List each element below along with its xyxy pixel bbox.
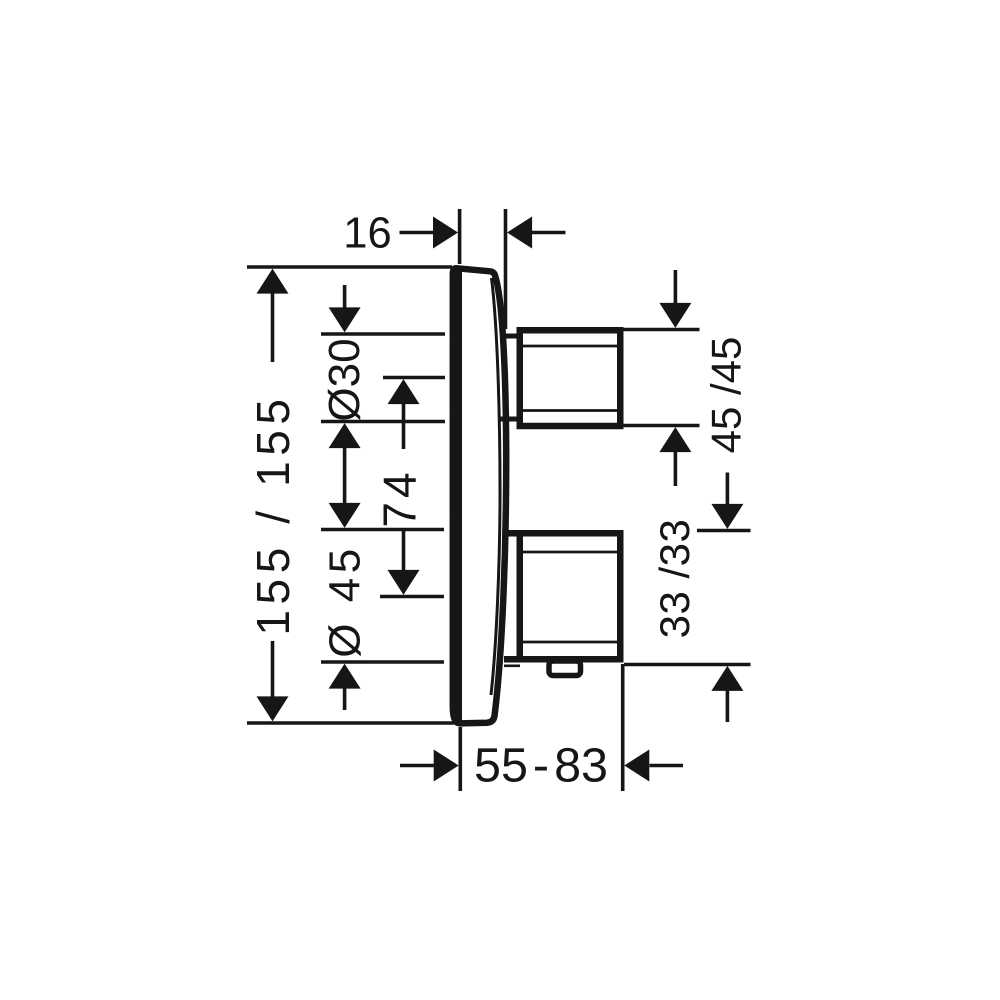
tick 155 bottom — [247, 721, 457, 725]
45/45 lower tail — [674, 452, 678, 486]
svg-text:16: 16 — [343, 210, 391, 258]
ext line 16 left — [458, 209, 462, 264]
arrow down d30 top — [329, 307, 361, 332]
16 arrow tail — [400, 231, 436, 235]
arrow down 74 bottom — [388, 570, 420, 595]
tick 155 top — [247, 265, 452, 269]
svg-text:45 /45: 45 /45 — [702, 337, 749, 454]
arrow left 55-83 — [624, 750, 649, 782]
ext line 16 right — [504, 209, 508, 329]
top knob collar stub upper — [500, 334, 520, 339]
33/33 lower tail — [726, 690, 730, 722]
ext line 33/33 top — [697, 529, 751, 533]
dimension lines, 3.2px — [247, 209, 751, 791]
ext line 55-83 left — [458, 727, 462, 791]
ext line 45/45 bottom — [610, 424, 700, 428]
arrow up 33/33 bottom — [711, 666, 743, 691]
ext line 45/45 top — [621, 328, 700, 332]
74 dim upper segment — [402, 403, 406, 449]
arrow up 45/45 bottom — [659, 427, 691, 452]
74 dim lower segment — [402, 528, 406, 570]
ext line 33/33 bottom — [624, 663, 751, 667]
ext line 55-83 right — [621, 664, 625, 791]
d30-d45 middle tail — [343, 448, 347, 503]
arrow up 74 top — [388, 379, 420, 404]
bottom knob body — [520, 533, 621, 659]
155 dim line upper tail — [271, 293, 275, 362]
arrow up d30 bottom — [329, 423, 361, 448]
arrow right 55-83 — [434, 750, 459, 782]
wall plate escutcheon outline — [453, 268, 506, 723]
svg-text:74: 74 — [374, 468, 426, 527]
svg-text:Ø30: Ø30 — [320, 338, 369, 421]
arrow down d45 top — [329, 503, 361, 528]
arrow up 155 top — [257, 269, 289, 294]
arrow down 45/45 top — [659, 303, 691, 328]
svg-text:55-83: 55-83 — [474, 739, 608, 793]
55-83 left arrow tail — [400, 764, 434, 768]
svg-text:155 / 155: 155 / 155 — [247, 393, 299, 635]
top knob body — [520, 330, 621, 426]
bottom knob inner edge line lower — [523, 641, 617, 644]
svg-text:33 /33: 33 /33 — [651, 519, 698, 639]
bottom knob collar extension lower — [504, 656, 520, 663]
d45 lower tail — [343, 687, 347, 710]
tick d45 bottom — [321, 660, 444, 664]
d30 upper tail — [343, 285, 347, 309]
wall plate front face inner arc — [491, 278, 500, 695]
bottom knob collar bottom thin edge — [504, 664, 520, 667]
55-83 right arrow tail — [650, 764, 684, 768]
tick d30 bottom — [321, 420, 445, 424]
tick 74 top — [383, 376, 445, 380]
33/33 upper tail — [726, 473, 730, 506]
45/45 upper tail — [674, 270, 678, 304]
top knob collar stub lower — [500, 417, 520, 422]
tick 74 bottom — [380, 595, 444, 599]
155 dim line lower tail — [271, 641, 275, 698]
arrow right 16 — [433, 217, 458, 249]
arrow down 33/33 top — [711, 504, 743, 529]
bottom knob lever tab — [549, 661, 581, 676]
svg-text:Ø 45: Ø 45 — [321, 544, 370, 657]
arrow down 155 bottom — [257, 696, 289, 721]
wall plate back edge thick bar — [455, 271, 462, 721]
bottom knob collar extension upper — [504, 530, 520, 537]
16 right arrow tail — [531, 231, 566, 235]
arrow up d45 bottom — [329, 664, 361, 689]
tick d45 top — [321, 528, 444, 532]
top knob inner edge line lower — [523, 409, 617, 412]
bottom knob inner edge line upper — [523, 551, 617, 554]
tick d30 top — [321, 332, 445, 336]
top knob inner edge line upper — [523, 345, 617, 348]
arrow left 16 — [507, 217, 532, 249]
